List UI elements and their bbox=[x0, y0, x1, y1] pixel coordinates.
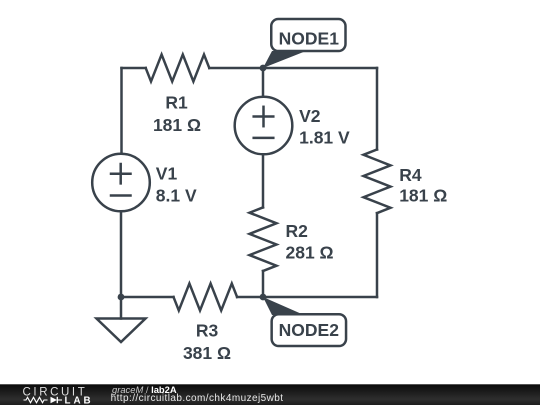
svg-text:http://circuitlab.com/chk4muze: http://circuitlab.com/chk4muzej5wbt bbox=[111, 393, 284, 404]
V2 minus sign bbox=[254, 137, 274, 140]
resistor R1 zigzag bbox=[146, 55, 210, 82]
voltage source V2 circle bbox=[235, 97, 293, 155]
V1 plus sign bbox=[111, 172, 131, 175]
junction node B dot bbox=[260, 65, 267, 72]
svg-text:NODE1: NODE1 bbox=[279, 28, 340, 48]
logo resistor glyph bbox=[24, 397, 48, 402]
svg-text:R4: R4 bbox=[399, 165, 422, 185]
svg-text:181 Ω: 181 Ω bbox=[153, 115, 201, 135]
svg-text:V1: V1 bbox=[156, 163, 178, 183]
resistor R4 zigzag bbox=[364, 150, 391, 214]
wire right vertical upper bbox=[376, 68, 379, 150]
V1 minus sign bbox=[111, 194, 131, 197]
junction node E dot bbox=[260, 294, 267, 301]
wire left vertical upper bbox=[120, 68, 123, 154]
svg-text:V2: V2 bbox=[299, 106, 321, 126]
resistor R2 zigzag bbox=[250, 207, 277, 271]
svg-text:NODE2: NODE2 bbox=[279, 320, 340, 340]
wire middle upper bbox=[262, 68, 265, 97]
logo diode glyph bbox=[51, 397, 58, 403]
NODE1 label box bbox=[271, 19, 345, 51]
ground triangle bbox=[97, 319, 146, 343]
wire R3 to ground node bbox=[121, 296, 174, 299]
svg-text:8.1 V: 8.1 V bbox=[156, 185, 197, 205]
NODE2 label box bbox=[272, 314, 346, 346]
svg-text:1.81 V: 1.81 V bbox=[299, 128, 350, 148]
svg-text:LAB: LAB bbox=[65, 396, 94, 405]
svg-text:381 Ω: 381 Ω bbox=[183, 343, 231, 363]
NODE2 tail bbox=[263, 297, 304, 315]
wire node E to R3 bbox=[237, 296, 263, 299]
svg-text:181 Ω: 181 Ω bbox=[399, 186, 447, 206]
wire V2 to R2 bbox=[262, 154, 265, 207]
wire R1 to node B bbox=[209, 67, 263, 70]
voltage source V1 circle bbox=[92, 154, 150, 212]
svg-text:281 Ω: 281 Ω bbox=[286, 242, 334, 262]
wire R2 to node E bbox=[262, 271, 265, 297]
junction ground dot bbox=[118, 294, 125, 301]
V2 plus sign bbox=[254, 115, 274, 118]
svg-text:R1: R1 bbox=[165, 93, 188, 113]
wire bottom right segment bbox=[263, 296, 377, 299]
resistor R3 zigzag bbox=[174, 284, 238, 311]
svg-text:R2: R2 bbox=[286, 221, 309, 241]
ground stem bbox=[120, 297, 123, 319]
wire left vertical lower bbox=[120, 211, 123, 297]
NODE1 tail bbox=[263, 51, 306, 68]
wire right vertical lower bbox=[376, 213, 379, 297]
svg-text:R3: R3 bbox=[196, 321, 219, 341]
wire node B to top-right corner bbox=[263, 67, 377, 70]
wire top-left horizontal lead bbox=[122, 67, 146, 70]
